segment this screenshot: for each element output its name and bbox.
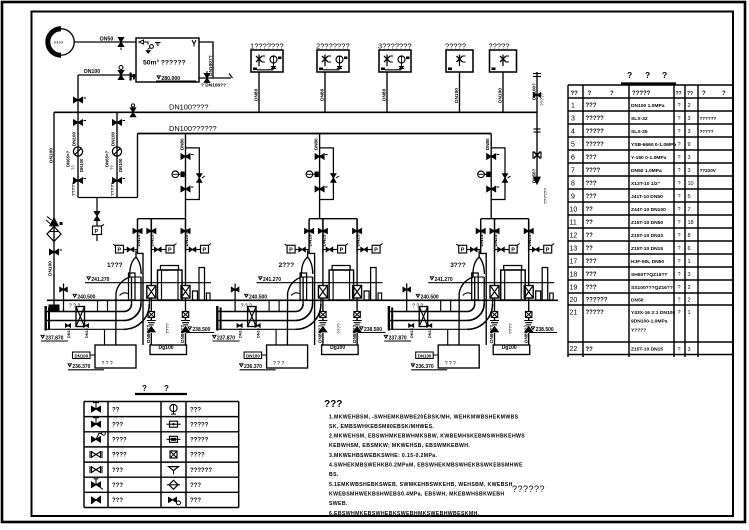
materials row 19 bbox=[570, 284, 691, 291]
svg-text:????: ???? bbox=[190, 453, 205, 459]
svg-text:DN100: DN100 bbox=[418, 353, 432, 358]
legend symbol L2 bbox=[92, 418, 101, 427]
svg-text:?: ? bbox=[678, 298, 681, 304]
svg-text:241.270: 241.270 bbox=[91, 277, 109, 283]
valve V-c on riser bbox=[74, 97, 87, 103]
svg-text:???: ??? bbox=[190, 483, 201, 489]
svg-text:??????: ?????? bbox=[190, 468, 212, 474]
pump 1 pipe labels DN80 bbox=[146, 323, 186, 343]
svg-text:18: 18 bbox=[570, 271, 578, 278]
svg-text:DN25??: DN25?? bbox=[184, 229, 189, 247]
svg-text:??: ?? bbox=[586, 347, 594, 353]
svg-text:3: 3 bbox=[688, 116, 691, 122]
bypass loop riser2 bbox=[320, 148, 339, 200]
svg-text:?: ? bbox=[678, 194, 681, 200]
svg-text:DN15: DN15 bbox=[67, 328, 71, 338]
legend symbol R2 bbox=[167, 421, 181, 427]
svg-text:P: P bbox=[168, 248, 172, 254]
svg-text:??: ?? bbox=[110, 165, 115, 170]
valve X on right drain bbox=[533, 152, 541, 159]
pump 1 elevation 237.870 bbox=[41, 335, 68, 341]
discharge riser 2 bbox=[319, 134, 321, 219]
svg-text:2: 2 bbox=[688, 285, 691, 291]
svg-text:??????: ?????? bbox=[512, 484, 545, 494]
svg-text:???: ??? bbox=[586, 103, 597, 109]
legend symbol R7 bbox=[169, 497, 181, 505]
pump 1 discharge pipes with valves bbox=[147, 253, 190, 345]
svg-text:DN15: DN15 bbox=[239, 328, 243, 338]
svg-text:? ? ?: ? ? ? bbox=[273, 361, 284, 367]
float valve in tank bbox=[139, 40, 161, 54]
svg-text:241.270: 241.270 bbox=[435, 277, 453, 283]
pump 2 instrument group B bbox=[323, 244, 348, 254]
svg-text:?: ? bbox=[722, 91, 726, 97]
main bus1 DN100 bbox=[54, 111, 537, 113]
pump 3 discharge pipes with valves bbox=[490, 253, 533, 345]
pump 1 elbow pipe bbox=[124, 277, 149, 329]
svg-text:P: P bbox=[340, 248, 344, 254]
svg-text:1???????: 1??????? bbox=[250, 42, 284, 51]
svg-text:DN25??: DN25?? bbox=[527, 229, 532, 247]
svg-text:4.SWHEKMBSWEHKB0.2MPaM, EBSWHE: 4.SWHEKMBSWEHKB0.2MPaM, EBSWHEKMBSWHEKBS… bbox=[329, 463, 523, 469]
pump 1 suction stub valve bbox=[60, 284, 68, 312]
pump 3 butterfly valve in suction bbox=[419, 307, 428, 327]
valve on right line upper bbox=[534, 93, 541, 97]
svg-text:???: ??? bbox=[586, 285, 597, 291]
svg-text:????: ???? bbox=[54, 40, 64, 45]
svg-text:???: ??? bbox=[586, 272, 597, 278]
wire drop from unit box 5 bbox=[502, 72, 504, 112]
unit box 1??????? bbox=[250, 42, 284, 73]
svg-text:21: 21 bbox=[570, 309, 578, 316]
svg-text:DN100: DN100 bbox=[454, 88, 460, 103]
svg-text:236.370: 236.370 bbox=[244, 364, 262, 370]
legend symbol L6 bbox=[92, 479, 104, 490]
svg-text:DN25??: DN25?? bbox=[150, 229, 155, 247]
svg-text:6: 6 bbox=[571, 154, 575, 161]
svg-text:????: ???? bbox=[112, 438, 127, 444]
svg-text:??????: ?????? bbox=[700, 116, 717, 121]
legend symbol R5 bbox=[169, 467, 179, 474]
svg-text:P: P bbox=[461, 248, 465, 254]
pump 3 suction pipe bbox=[388, 306, 468, 331]
svg-text:1: 1 bbox=[688, 259, 691, 265]
svg-text:3: 3 bbox=[571, 115, 575, 122]
svg-text:DN65×?: DN65×? bbox=[105, 151, 110, 167]
svg-text:DN80??: DN80?? bbox=[146, 325, 152, 343]
pump 1 instrument group B bbox=[151, 244, 176, 254]
svg-text:5: 5 bbox=[688, 194, 691, 200]
reducer circle branch1 bbox=[73, 147, 82, 156]
svg-text:DN50: DN50 bbox=[100, 37, 113, 43]
valve riser3 lower bbox=[487, 186, 500, 192]
svg-text:??????: ?????? bbox=[586, 298, 608, 304]
svg-text:DN100: DN100 bbox=[79, 158, 84, 172]
materials row 21 bbox=[570, 309, 691, 333]
materials row 18 bbox=[570, 271, 691, 278]
svg-text:236.370: 236.370 bbox=[72, 364, 90, 370]
pump 3 elevation 238.500 bbox=[529, 327, 557, 333]
svg-text:?: ? bbox=[142, 384, 147, 393]
svg-text:?: ? bbox=[610, 91, 614, 97]
valve riser3 upper bbox=[487, 154, 500, 160]
motor 3 bbox=[501, 266, 554, 301]
svg-text:2: 2 bbox=[688, 103, 691, 109]
svg-text:DN100????: DN100???? bbox=[169, 103, 208, 112]
wire drop from unit box 1 bbox=[258, 72, 260, 112]
svg-text:P: P bbox=[289, 248, 293, 254]
discharge riser 1 bbox=[185, 134, 187, 219]
svg-text:SH50T?QZ16?T: SH50T?QZ16?T bbox=[631, 272, 667, 278]
materials row 17 bbox=[570, 258, 691, 265]
pump 2 level line 241.270 bbox=[257, 277, 383, 283]
tank elevation 280.000 bbox=[156, 76, 196, 82]
svg-text:?: ? bbox=[662, 70, 667, 80]
svg-text:?: ? bbox=[678, 207, 681, 213]
svg-text:?: ? bbox=[678, 142, 681, 148]
svg-text:?: ? bbox=[678, 181, 681, 187]
pump 3 instrument group A bbox=[456, 244, 481, 254]
pump 2 intake cone bbox=[276, 273, 307, 345]
svg-text:HJF-50L DN50: HJF-50L DN50 bbox=[631, 259, 664, 265]
svg-text:13: 13 bbox=[570, 245, 578, 252]
materials row 9 bbox=[571, 193, 691, 200]
pump 1 foundation bbox=[73, 345, 187, 368]
svg-text:5: 5 bbox=[571, 141, 575, 148]
pump 1 casing bell bbox=[130, 251, 141, 278]
pump 1 drain cocks under suction pipe bbox=[66, 324, 90, 338]
tank drain pipe bbox=[199, 77, 231, 79]
materials row 7 bbox=[571, 167, 717, 174]
svg-text:??: ?? bbox=[586, 207, 594, 213]
svg-text:DN65×?: DN65×? bbox=[66, 151, 71, 167]
materials header row bbox=[571, 91, 727, 97]
svg-text:DN100??????: DN100?????? bbox=[169, 124, 217, 133]
svg-text:9: 9 bbox=[688, 142, 691, 148]
svg-text:?????: ????? bbox=[586, 310, 605, 316]
svg-text:DN15: DN15 bbox=[410, 328, 414, 338]
svg-text:?: ? bbox=[627, 70, 632, 80]
legend symbol L4 bbox=[90, 451, 102, 458]
svg-text:?????: ????? bbox=[586, 116, 605, 122]
svg-text:2???????: 2??????? bbox=[316, 42, 350, 51]
svg-text:???: ??? bbox=[586, 155, 597, 161]
pump 2 pipe labels DN80 bbox=[318, 323, 358, 343]
svg-text:1: 1 bbox=[688, 310, 691, 316]
pump 3 drain cocks under suction pipe bbox=[409, 324, 433, 338]
svg-text:BS.: BS. bbox=[329, 472, 339, 478]
materials row 8 bbox=[571, 180, 694, 187]
pump 3 level line 241.270 bbox=[428, 277, 554, 283]
svg-text:????: ???? bbox=[165, 323, 171, 334]
strainer diamond left column bbox=[47, 227, 61, 242]
pump 2 foundation bbox=[244, 345, 358, 368]
svg-text:5.1EMKWBSHEBKSWEB, SWMKEHBSWKE: 5.1EMKWBSHEBKSWEB, SWMKEHBSWKEHB, WEHSBM… bbox=[329, 482, 513, 488]
svg-text:?????: ????? bbox=[700, 129, 714, 134]
svg-text:?????: ????? bbox=[632, 91, 651, 97]
materials row 1 bbox=[571, 102, 691, 109]
svg-text:19: 19 bbox=[570, 284, 578, 291]
pump 2 drain cocks under suction pipe bbox=[237, 324, 261, 338]
svg-text:DN100: DN100 bbox=[111, 131, 116, 146]
svg-text:3: 3 bbox=[688, 347, 691, 353]
svg-text:???: ??? bbox=[190, 498, 201, 504]
svg-text:DN25??: DN25?? bbox=[321, 229, 326, 247]
svg-text:P: P bbox=[203, 248, 207, 254]
pump 2 discharge pipes with valves bbox=[318, 253, 361, 345]
svg-text:18: 18 bbox=[688, 220, 694, 226]
pump 2 elevation 236.370 bbox=[240, 364, 276, 370]
svg-text:9: 9 bbox=[571, 193, 575, 200]
svg-text:DN80??: DN80?? bbox=[523, 325, 529, 343]
riser inlet to bus1 bbox=[77, 75, 79, 112]
svg-text:DN100: DN100 bbox=[118, 158, 123, 172]
svg-text:9DN100-1.0MPa: 9DN100-1.0MPa bbox=[631, 319, 668, 325]
svg-text:50m³ ??????: 50m³ ?????? bbox=[143, 60, 186, 67]
svg-text:17: 17 bbox=[570, 258, 578, 265]
svg-text:?????: ????? bbox=[489, 42, 510, 51]
pressure gauge riser3 bbox=[478, 171, 492, 178]
svg-text:DN80: DN80 bbox=[180, 138, 185, 150]
svg-text:3???: 3??? bbox=[450, 262, 466, 269]
svg-text:P: P bbox=[546, 248, 550, 254]
safety valve left column bbox=[46, 217, 63, 227]
svg-text:1.MKWEHBSM, -SWHEMKBWBE20EBSK/: 1.MKWEHBSM, -SWHEMKBWBE20EBSK/MH, WEHKMW… bbox=[329, 414, 519, 420]
materials row 10 bbox=[570, 206, 691, 213]
svg-text:10: 10 bbox=[688, 181, 694, 187]
svg-text:DN80: DN80 bbox=[254, 88, 260, 101]
pump 3 elevation 240.500 bbox=[412, 294, 439, 309]
drain arrow end bbox=[534, 177, 541, 185]
pump 1 instrument group C bbox=[186, 244, 212, 254]
svg-text:20: 20 bbox=[570, 297, 578, 304]
bus2 DN100 bbox=[138, 133, 492, 135]
svg-text:?????: ????? bbox=[445, 42, 466, 51]
legend table grid bbox=[84, 402, 239, 508]
svg-text:?: ? bbox=[702, 91, 706, 97]
svg-text:7: 7 bbox=[571, 167, 575, 174]
svg-text:240.500: 240.500 bbox=[77, 295, 95, 301]
svg-text:10: 10 bbox=[570, 206, 578, 213]
svg-text:12: 12 bbox=[570, 232, 578, 239]
valve V-a on DN50 line bbox=[118, 38, 124, 51]
water source symbol bbox=[48, 29, 77, 55]
svg-text:X13T-10 1/2": X13T-10 1/2" bbox=[631, 181, 660, 187]
legend symbol R3 bbox=[167, 436, 181, 442]
valve V-b on inlet bbox=[118, 66, 124, 80]
valve branch1 lower bbox=[74, 178, 87, 184]
svg-text:???: ??? bbox=[112, 422, 123, 428]
svg-text:DN100 1.0MPa: DN100 1.0MPa bbox=[631, 103, 665, 109]
pump 2 instrument group C bbox=[357, 244, 383, 254]
svg-text:SS100???QZ16??: SS100???QZ16?? bbox=[631, 285, 673, 291]
pump 1 level line 241.270 bbox=[85, 277, 211, 283]
svg-text:?????: ????? bbox=[71, 182, 76, 196]
svg-text:??: ?? bbox=[112, 407, 120, 413]
unit box 2??????? bbox=[316, 42, 350, 73]
pump 3 instrument group C bbox=[529, 244, 555, 254]
svg-text:2???: 2??? bbox=[279, 262, 295, 269]
materials row 12 bbox=[570, 232, 691, 239]
svg-text:DN15??: DN15?? bbox=[479, 229, 484, 247]
svg-text:DN80: DN80 bbox=[314, 138, 319, 150]
svg-text:??220V: ??220V bbox=[700, 168, 717, 173]
svg-text:4: 4 bbox=[571, 128, 575, 135]
svg-text:Y43X-16 2:1 DN100: Y43X-16 2:1 DN100 bbox=[631, 310, 675, 316]
svg-text:???: ??? bbox=[112, 468, 123, 474]
svg-text:?: ? bbox=[678, 168, 681, 174]
svg-text:DN15??: DN15?? bbox=[136, 229, 141, 247]
pump 1 intake cone bbox=[105, 273, 136, 345]
valve left column lower bbox=[50, 249, 63, 255]
svg-text:6: 6 bbox=[688, 246, 691, 252]
pump 3 instrument group B bbox=[495, 244, 520, 254]
svg-text:?????: ????? bbox=[190, 422, 209, 428]
PRV branch column 2 bbox=[113, 112, 126, 197]
pump 1 elevation 240.500 bbox=[69, 294, 96, 309]
svg-text:DN25??: DN25?? bbox=[493, 229, 498, 247]
pump 3 suction stub valve bbox=[403, 284, 411, 312]
svg-text:3: 3 bbox=[688, 272, 691, 278]
svg-text:?: ? bbox=[678, 259, 681, 265]
svg-text:?: ? bbox=[678, 155, 681, 161]
svg-text:Z15T-10 DN50: Z15T-10 DN50 bbox=[631, 220, 663, 226]
legend symbol L1 bbox=[92, 403, 101, 412]
svg-text:2: 2 bbox=[688, 298, 691, 304]
svg-text:???: ??? bbox=[190, 407, 201, 413]
drain end tick bbox=[229, 74, 233, 79]
tank T1 50m3 bbox=[136, 38, 199, 82]
pipe source to tank DN50 bbox=[77, 41, 136, 43]
svg-text:DN100: DN100 bbox=[84, 69, 100, 75]
materials row 6 bbox=[571, 154, 691, 161]
pump 3 casing bell bbox=[473, 251, 484, 278]
drain assembly with transmitter bbox=[93, 198, 105, 242]
svg-text:1: 1 bbox=[571, 102, 575, 109]
svg-text:P: P bbox=[95, 229, 99, 235]
svg-text:??????: ?????? bbox=[543, 188, 549, 204]
svg-text:1???: 1??? bbox=[107, 262, 123, 269]
collector riser to bus2 bbox=[137, 134, 139, 198]
svg-text:? ? ?: ? ? ? bbox=[445, 361, 456, 367]
svg-text:3: 3 bbox=[688, 155, 691, 161]
pump 2 manifold bbox=[305, 219, 362, 345]
svg-text:?: ? bbox=[678, 246, 681, 252]
svg-text:YSB-6660 0-1.0MPa: YSB-6660 0-1.0MPa bbox=[631, 142, 676, 148]
svg-text:SK, EMBSWHKEBSM80EBSK/MHWES.: SK, EMBSWHKEBSM80EBSK/MHWES. bbox=[329, 424, 434, 430]
svg-text:DN50 1.0MPa: DN50 1.0MPa bbox=[631, 168, 662, 174]
svg-text:DN15: DN15 bbox=[85, 328, 89, 338]
svg-text:DN80??: DN80?? bbox=[318, 325, 324, 343]
svg-text:7: 7 bbox=[688, 207, 691, 213]
svg-text:???: ??? bbox=[112, 498, 123, 504]
svg-text:?: ? bbox=[678, 103, 681, 109]
svg-text:DN80: DN80 bbox=[485, 138, 490, 150]
svg-text:??: ?? bbox=[571, 91, 579, 97]
svg-text:SLX-32: SLX-32 bbox=[631, 116, 648, 122]
svg-text:Z15T-10 DN32: Z15T-10 DN32 bbox=[631, 233, 663, 239]
svg-text:DN100: DN100 bbox=[49, 148, 55, 163]
pump 2 casing bell bbox=[301, 251, 312, 278]
pump 2 elbow pipe bbox=[296, 277, 321, 329]
svg-text:???: ??? bbox=[586, 259, 597, 265]
svg-text:DN80: DN80 bbox=[320, 88, 326, 101]
pump 3 elevation 237.870 bbox=[384, 335, 411, 341]
svg-text:Z15T-10 DN15: Z15T-10 DN15 bbox=[631, 246, 663, 252]
pump 1 elevation 236.370 bbox=[68, 364, 104, 370]
svg-text:8: 8 bbox=[688, 233, 691, 239]
svg-text:?: ? bbox=[678, 129, 681, 135]
valve riser2 lower bbox=[315, 186, 328, 192]
bypass loop riser1 bbox=[186, 148, 205, 200]
materials row 22 bbox=[570, 346, 691, 353]
svg-text:DN100: DN100 bbox=[75, 353, 89, 358]
svg-text:?: ? bbox=[588, 91, 592, 97]
tank outlet top pipe bbox=[199, 42, 213, 78]
materials table title bbox=[621, 70, 676, 84]
pump 1 elevation 238.500 bbox=[186, 327, 214, 333]
legend symbol L5 bbox=[90, 466, 102, 473]
svg-text:DN80: DN80 bbox=[382, 88, 388, 101]
unit box 3??????? bbox=[378, 42, 412, 73]
svg-text:KEBWHSM, EBSMKW; MKWEHSB, EBSW: KEBWHSM, EBSMKW; MKWEHSB, EBSWMKEBWH. bbox=[329, 443, 470, 449]
svg-text:DN100: DN100 bbox=[246, 353, 260, 358]
svg-text:KWEBSMHWEKBSHWEBS0.4MPa, EBSWH: KWEBSMHWEKBSHWEBS0.4MPa, EBSWH, MKEBWHSB… bbox=[329, 492, 504, 498]
legend symbol L3 bbox=[92, 432, 106, 443]
svg-text:DN100: DN100 bbox=[72, 131, 77, 146]
floor level line bbox=[47, 299, 558, 301]
svg-text:DN100??: DN100?? bbox=[208, 55, 214, 76]
reducer circle branch2 bbox=[112, 147, 121, 156]
svg-text:11: 11 bbox=[570, 219, 577, 226]
svg-text:?: ? bbox=[678, 310, 681, 316]
wire drop from unit box 4 bbox=[459, 72, 461, 112]
right vertical feed-drain line bbox=[533, 72, 541, 177]
pump 2 suction pipe bbox=[216, 306, 296, 331]
svg-text:? ? ?: ? ? ? bbox=[102, 361, 113, 367]
unit box ????? bbox=[489, 42, 517, 73]
svg-text:P: P bbox=[374, 248, 378, 254]
pump 2 elevation 238.500 bbox=[358, 327, 386, 333]
svg-text:DN80??: DN80?? bbox=[180, 325, 186, 343]
svg-text:Dg100: Dg100 bbox=[502, 345, 517, 351]
svg-text:DN80??: DN80?? bbox=[489, 325, 495, 343]
svg-text:3.MKWEHBSWEBKSWHE: 0.15-0.2MP: 3.MKWEHBSWEBKSWHE: 0.15-0.2MPa. bbox=[329, 453, 437, 459]
svg-text:??: ?? bbox=[687, 91, 693, 97]
discharge riser 3 bbox=[490, 134, 492, 219]
svg-text:?????: ????? bbox=[190, 438, 209, 444]
pump 1 manifold bbox=[133, 219, 190, 345]
PRV branch column 1 bbox=[74, 112, 87, 197]
svg-text:22: 22 bbox=[570, 346, 578, 353]
pump 1 butterfly valve in suction bbox=[76, 307, 85, 327]
valve V-d on tank drain bbox=[204, 71, 210, 83]
svg-text:236.370: 236.370 bbox=[416, 364, 434, 370]
svg-text:SWEB.: SWEB. bbox=[329, 501, 348, 507]
svg-text:240.500: 240.500 bbox=[421, 295, 439, 301]
materials row 3 bbox=[571, 115, 717, 122]
svg-text:Y????: Y???? bbox=[631, 328, 646, 334]
svg-text:??: ?? bbox=[586, 220, 594, 226]
pump 2 instrument group A bbox=[285, 244, 310, 254]
svg-text:?: ? bbox=[678, 220, 681, 226]
materials row 13 bbox=[570, 245, 691, 252]
svg-text:DN100: DN100 bbox=[498, 88, 504, 103]
svg-text:Dg100: Dg100 bbox=[330, 345, 345, 351]
valve riser2 upper bbox=[315, 154, 328, 160]
svg-text:DN15: DN15 bbox=[428, 328, 432, 338]
pump 2 butterfly valve in suction bbox=[248, 307, 257, 327]
